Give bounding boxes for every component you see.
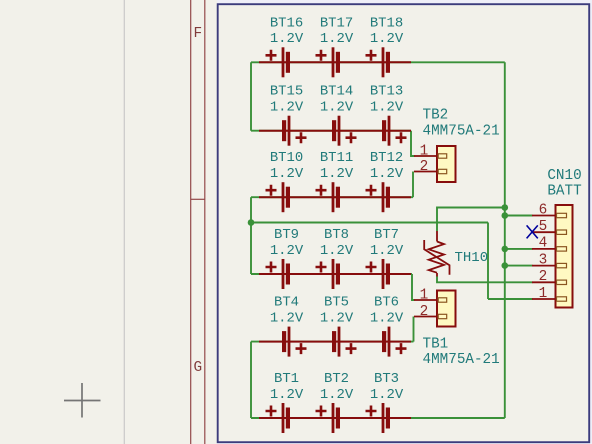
wire row5 [251, 341, 414, 343]
battery pins row line [259, 273, 411, 275]
svg-text:BT14: BT14 [320, 84, 353, 100]
wire left vertical rows1-2 [250, 62, 252, 130]
CN10 pin 3 [532, 265, 556, 267]
wire row2 to TB2 pin1 [411, 131, 415, 156]
wire row4 [251, 273, 412, 275]
svg-text:1.2V: 1.2V [320, 310, 354, 326]
svg-text:BT18: BT18 [370, 15, 403, 31]
svg-text:1: 1 [420, 288, 429, 304]
svg-text:TB2: TB2 [423, 108, 449, 124]
wire row6 [251, 417, 505, 419]
battery BT10 [266, 150, 304, 212]
svg-text:G: G [193, 360, 202, 376]
battery BT9 [266, 227, 304, 289]
svg-text:1.2V: 1.2V [270, 166, 304, 182]
junction [502, 212, 509, 219]
svg-text:BT6: BT6 [374, 295, 399, 311]
svg-text:BT2: BT2 [324, 371, 349, 387]
thermistor TH10 [424, 231, 449, 277]
svg-text:1.2V: 1.2V [320, 387, 354, 403]
battery BT2 [316, 371, 354, 433]
wire to CN10 pin1 [488, 298, 533, 300]
battery BT8 [316, 227, 354, 289]
svg-text:3: 3 [539, 252, 548, 268]
svg-text:2: 2 [539, 269, 548, 285]
battery pins row line [259, 417, 411, 419]
battery BT13 [370, 84, 407, 146]
svg-text:BT9: BT9 [274, 227, 299, 243]
svg-text:1.2V: 1.2V [270, 310, 304, 326]
terminal block TB1 [437, 291, 456, 327]
TB1 pin 2 [414, 316, 437, 318]
battery pins row line [259, 341, 411, 343]
wire left vertical rows5-6 [250, 342, 252, 418]
wire row4 to TB1 pin1 [412, 274, 415, 300]
svg-text:2: 2 [420, 159, 429, 175]
cursor crosshair [64, 383, 101, 418]
svg-text:4MM75A-21: 4MM75A-21 [423, 124, 500, 140]
svg-text:BT17: BT17 [320, 15, 353, 31]
wire TH10 bottom to CN10 pin2 [437, 277, 533, 283]
svg-text:CN10: CN10 [547, 168, 581, 184]
wire left vertical rows3-4 [250, 197, 252, 274]
svg-text:TH10: TH10 [455, 250, 489, 266]
svg-text:1.2V: 1.2V [270, 31, 304, 47]
svg-text:1.2V: 1.2V [320, 166, 354, 182]
battery BT12 [366, 150, 404, 212]
svg-text:1: 1 [539, 286, 548, 302]
svg-text:4: 4 [539, 236, 548, 252]
svg-text:4MM75A-21: 4MM75A-21 [423, 352, 500, 368]
wire negative rail vertical [504, 62, 506, 418]
junction [502, 246, 509, 253]
battery BT15 [270, 84, 307, 146]
wire to CN10 pin4 [505, 248, 533, 250]
svg-text:1: 1 [420, 144, 429, 160]
svg-text:BT16: BT16 [270, 15, 303, 31]
svg-text:1.2V: 1.2V [270, 243, 304, 259]
svg-text:BATT: BATT [547, 184, 582, 200]
svg-text:1.2V: 1.2V [320, 243, 354, 259]
wire positive tap vertical [487, 223, 489, 300]
junction [248, 219, 255, 226]
TB2 pin 1 [414, 155, 437, 157]
svg-text:1.2V: 1.2V [270, 387, 304, 403]
wire to CN10 pin6 [505, 215, 533, 217]
svg-text:BT12: BT12 [370, 150, 403, 166]
junction [502, 262, 509, 269]
frame row tick [191, 198, 205, 200]
CN10 pin 6 [532, 215, 556, 217]
CN10 pin 5 [532, 231, 556, 233]
TB1 pin 1 [414, 299, 437, 301]
CN10 pin 4 [532, 248, 556, 250]
svg-text:1.2V: 1.2V [370, 387, 404, 403]
svg-text:1.2V: 1.2V [320, 31, 354, 47]
svg-text:1.2V: 1.2V [370, 31, 404, 47]
battery BT17 [316, 15, 354, 77]
svg-text:BT4: BT4 [274, 295, 299, 311]
wire to TH10 top [437, 208, 505, 232]
battery BT16 [266, 15, 304, 77]
battery pins row line [259, 130, 411, 132]
svg-text:1.2V: 1.2V [320, 100, 354, 116]
connector CN10 [556, 205, 573, 308]
wire TB2 pin2 to row3 [412, 172, 414, 198]
sheet border [218, 4, 590, 442]
svg-text:BT15: BT15 [270, 84, 303, 100]
battery BT5 [320, 295, 357, 357]
svg-text:BT3: BT3 [374, 371, 399, 387]
svg-text:BT11: BT11 [320, 150, 353, 166]
battery pins row line [259, 61, 411, 63]
battery BT1 [266, 371, 304, 433]
svg-text:BT10: BT10 [270, 150, 303, 166]
svg-text:1.2V: 1.2V [370, 243, 404, 259]
page background left zone [0, 0, 217, 444]
CN10 pin 1 [532, 298, 556, 300]
battery BT11 [316, 150, 354, 212]
battery BT6 [370, 295, 407, 357]
svg-text:TB1: TB1 [423, 337, 449, 353]
battery BT4 [270, 295, 307, 357]
svg-text:F: F [193, 26, 202, 42]
svg-text:BT8: BT8 [324, 227, 349, 243]
CN10 pin 2 [532, 281, 556, 283]
battery BT7 [366, 227, 404, 289]
no-connect flag on CN10 pin 5 [527, 225, 538, 238]
frame border line right [204, 0, 206, 444]
svg-text:1.2V: 1.2V [370, 166, 404, 182]
battery BT18 [366, 15, 404, 77]
wire TB1 pin2 to row5 [413, 317, 415, 342]
junction [502, 204, 509, 211]
svg-text:6: 6 [539, 202, 548, 218]
battery BT14 [320, 84, 357, 146]
battery BT3 [366, 371, 404, 433]
svg-text:BT1: BT1 [274, 371, 299, 387]
wire row2 [251, 130, 411, 132]
svg-text:1.2V: 1.2V [370, 310, 404, 326]
svg-text:5: 5 [539, 219, 548, 235]
svg-text:BT5: BT5 [324, 295, 349, 311]
sheet interior [219, 5, 589, 441]
svg-text:BT7: BT7 [374, 227, 399, 243]
wire positive tap horizontal [251, 222, 488, 224]
wire row1 [251, 61, 505, 63]
svg-text:BT13: BT13 [370, 84, 403, 100]
svg-text:2: 2 [420, 304, 429, 320]
frame grid line [123, 0, 125, 444]
TB2 pin 2 [414, 171, 437, 173]
terminal block TB2 [437, 146, 456, 182]
svg-text:1.2V: 1.2V [370, 100, 404, 116]
svg-text:1.2V: 1.2V [270, 100, 304, 116]
battery pins row line [259, 196, 411, 198]
wire to CN10 pin3 [505, 265, 533, 267]
wire row3 [251, 196, 413, 198]
frame border line left [190, 0, 192, 444]
